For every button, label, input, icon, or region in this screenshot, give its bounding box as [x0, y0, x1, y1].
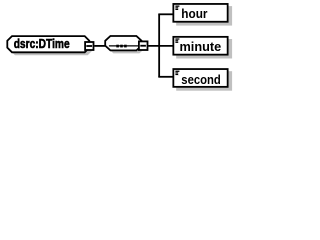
- element hour shadow: [176, 6, 232, 26]
- expand button of sequence: [139, 41, 148, 50]
- expand button of dsrc:DTime: [85, 42, 93, 50]
- wire from sequence to minute: [148, 45, 173, 47]
- branch vertical wire: [158, 14, 160, 77]
- svg-text:dsrc:DTime: dsrc:DTime: [14, 36, 70, 51]
- svg-text:second: second: [181, 72, 221, 87]
- wire from dsrc:DTime to sequence: [94, 45, 105, 47]
- wire to second: [158, 76, 173, 78]
- element dsrc:DTime: [7, 36, 89, 52]
- element hour: [173, 4, 227, 22]
- element minute: [173, 37, 227, 55]
- svg-text:minute: minute: [180, 39, 222, 54]
- element dsrc:DTime shadow: [10, 39, 92, 55]
- svg-text:hour: hour: [181, 6, 207, 21]
- sequence compositor: [105, 36, 141, 50]
- element minute shadow: [176, 39, 232, 59]
- sequence compositor shadow: [108, 39, 144, 53]
- element second: [173, 69, 227, 87]
- wire to hour: [158, 13, 173, 15]
- element second shadow: [176, 71, 232, 91]
